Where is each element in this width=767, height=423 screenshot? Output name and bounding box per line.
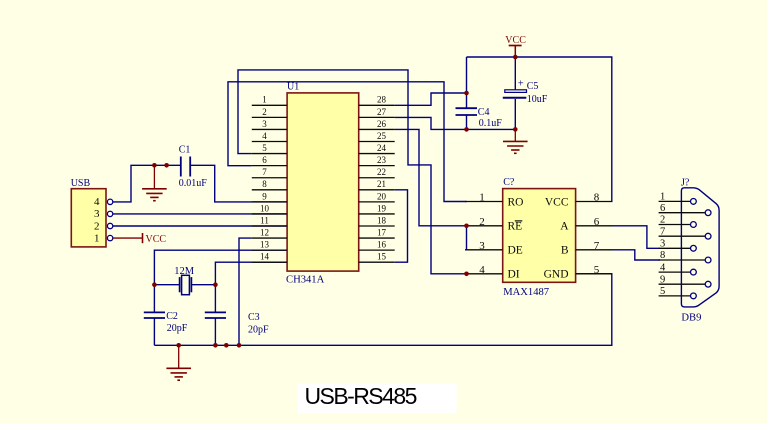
svg-text:4: 4 <box>660 262 666 273</box>
svg-text:3: 3 <box>262 119 267 129</box>
svg-text:3: 3 <box>660 239 665 250</box>
svg-text:U1: U1 <box>287 82 299 93</box>
svg-text:16: 16 <box>377 240 387 250</box>
svg-text:1: 1 <box>262 95 267 105</box>
svg-text:14: 14 <box>260 252 270 262</box>
svg-text:0.01uF: 0.01uF <box>179 178 208 189</box>
svg-text:MAX1487: MAX1487 <box>503 287 549 298</box>
svg-text:20pF: 20pF <box>248 324 269 335</box>
svg-text:7: 7 <box>594 240 600 252</box>
svg-text:23: 23 <box>377 155 387 165</box>
svg-text:5: 5 <box>594 264 600 276</box>
svg-text:5: 5 <box>262 143 267 153</box>
svg-text:CH341A: CH341A <box>286 275 325 286</box>
svg-text:C1: C1 <box>179 145 191 156</box>
svg-text:24: 24 <box>377 143 387 153</box>
svg-text:C3: C3 <box>248 312 260 323</box>
svg-text:C5: C5 <box>527 81 539 92</box>
svg-text:3: 3 <box>479 240 485 252</box>
svg-text:4: 4 <box>94 196 100 208</box>
svg-text:10: 10 <box>260 203 270 213</box>
svg-text:4: 4 <box>479 264 485 276</box>
svg-text:J?: J? <box>681 177 690 188</box>
svg-text:26: 26 <box>377 119 387 129</box>
svg-text:18: 18 <box>377 215 387 225</box>
svg-text:2: 2 <box>262 107 267 117</box>
svg-text:6: 6 <box>594 216 600 228</box>
svg-text:1: 1 <box>94 232 100 244</box>
svg-text:7: 7 <box>660 226 665 237</box>
svg-text:VCC: VCC <box>146 234 167 245</box>
svg-text:12: 12 <box>260 227 269 237</box>
svg-text:DB9: DB9 <box>681 313 701 324</box>
svg-text:USB: USB <box>71 178 91 189</box>
svg-text:GND: GND <box>544 269 569 281</box>
svg-text:C?: C? <box>503 177 515 188</box>
svg-text:1: 1 <box>479 192 485 204</box>
svg-text:3: 3 <box>94 208 100 220</box>
svg-text:8: 8 <box>262 179 267 189</box>
svg-text:2: 2 <box>94 220 100 232</box>
svg-text:RE: RE <box>508 221 523 233</box>
svg-text:2: 2 <box>479 216 485 228</box>
svg-text:C4: C4 <box>478 107 490 118</box>
svg-text:VCC: VCC <box>545 196 569 208</box>
svg-text:20pF: 20pF <box>167 323 188 334</box>
svg-text:17: 17 <box>377 227 387 237</box>
svg-text:25: 25 <box>377 131 387 141</box>
svg-text:19: 19 <box>377 203 387 213</box>
svg-text:1: 1 <box>660 192 665 203</box>
svg-text:8: 8 <box>660 250 665 261</box>
svg-text:9: 9 <box>660 274 665 285</box>
svg-text:VCC: VCC <box>505 35 526 46</box>
svg-text:22: 22 <box>377 167 386 177</box>
svg-text:+: + <box>518 79 524 90</box>
svg-text:C2: C2 <box>166 311 178 322</box>
svg-text:RO: RO <box>508 196 524 208</box>
svg-text:6: 6 <box>660 203 665 214</box>
svg-text:28: 28 <box>377 95 387 105</box>
svg-text:A: A <box>560 221 569 233</box>
svg-text:27: 27 <box>377 107 387 117</box>
svg-text:2: 2 <box>660 215 665 226</box>
svg-text:20: 20 <box>377 191 387 201</box>
svg-text:13: 13 <box>260 240 270 250</box>
svg-text:0.1uF: 0.1uF <box>479 118 503 129</box>
svg-text:10uF: 10uF <box>527 94 548 105</box>
svg-text:7: 7 <box>262 167 267 177</box>
svg-text:8: 8 <box>594 192 600 204</box>
svg-text:DI: DI <box>508 269 520 281</box>
svg-text:B: B <box>561 245 569 257</box>
svg-text:DE: DE <box>508 245 523 257</box>
svg-text:21: 21 <box>377 179 386 189</box>
svg-text:5: 5 <box>660 286 665 297</box>
svg-text:15: 15 <box>377 252 387 262</box>
svg-text:9: 9 <box>262 191 267 201</box>
svg-text:USB-RS485: USB-RS485 <box>305 383 417 409</box>
svg-text:11: 11 <box>260 215 269 225</box>
svg-text:6: 6 <box>262 155 267 165</box>
svg-text:4: 4 <box>262 131 267 141</box>
